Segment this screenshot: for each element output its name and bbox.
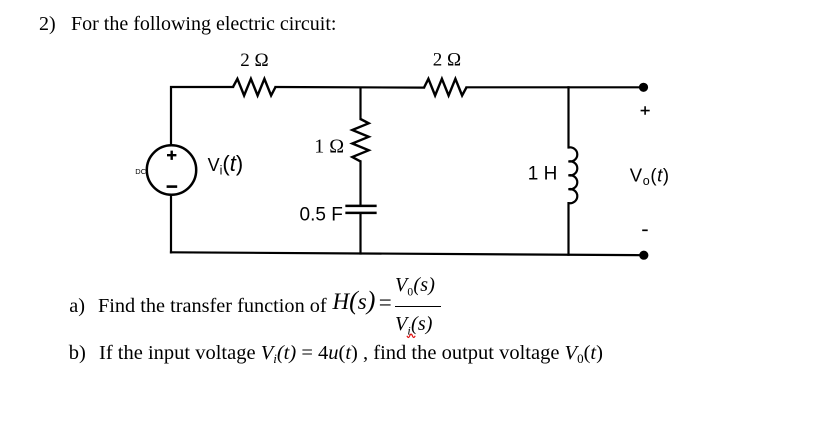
wire: R3 to capacitor C1: [359, 161, 361, 204]
question a) text: [69, 296, 85, 317]
node: output plus terminal dot: [639, 83, 648, 92]
wire: inductor to bottom rail: [567, 203, 569, 255]
svg-text:DC: DC: [135, 167, 146, 176]
fraction denominator Vi(s): [395, 314, 433, 341]
capacitor C1 (0.5 F) bottom plate: [347, 212, 376, 215]
inductor L1 (1 H) coil: [569, 147, 578, 203]
node: output minus terminal dot: [639, 251, 648, 260]
label: output plus polarity: [641, 106, 650, 114]
equation H(s) =: [333, 289, 376, 313]
svg-text:2 Ω: 2 Ω: [433, 50, 461, 71]
capacitor C1 (0.5 F) top plate: [347, 205, 376, 208]
red spellcheck squiggle under subscript i: [406, 333, 420, 341]
wire: capacitor to bottom rail: [359, 214, 361, 254]
wire: inductor branch top: [567, 87, 569, 147]
fraction numerator V0(s): [395, 275, 435, 303]
svg-text:Vo(t): Vo(t): [630, 165, 670, 189]
svg-text:0.5 F: 0.5 F: [300, 204, 343, 225]
svg-text:1 Ω: 1 Ω: [314, 136, 344, 158]
wire: source top up and right to R1: [171, 87, 233, 145]
voltage source minus mark: [167, 185, 178, 188]
question b) text: [69, 343, 86, 364]
resistor R3 (1 ohm, middle vertical): [352, 119, 368, 161]
wire: source bottom to bottom rail: [170, 195, 172, 253]
svg-text:Vi(t): Vi(t): [208, 151, 244, 178]
voltage source plus mark: [167, 151, 176, 160]
wire: middle branch top (node to R3): [359, 88, 361, 119]
wire: R1 to R2 through top node: [276, 86, 425, 89]
label: output minus polarity: [642, 229, 648, 231]
voltage source VS body: [147, 145, 196, 194]
title line: [39, 14, 56, 34]
wire: R2 to output plus terminal: [467, 86, 644, 88]
svg-text:1 H: 1 H: [528, 164, 558, 185]
fraction bar: [395, 306, 441, 308]
resistor R2 (2 ohm, top-right): [424, 79, 467, 96]
svg-text:2 Ω: 2 Ω: [240, 50, 268, 71]
resistor R1 (2 ohm, top-left): [233, 79, 276, 96]
wire: bottom rail: [171, 252, 644, 255]
